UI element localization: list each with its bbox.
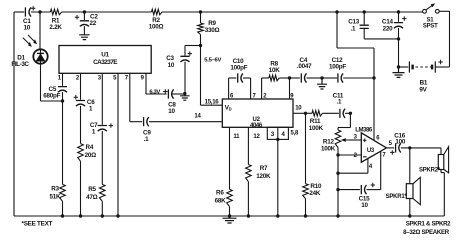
label SPKR2 (419, 168, 441, 174)
ground symbol below rail (223, 216, 237, 223)
wire R9 node to C3 (185, 46, 201, 56)
wire U2 pin10 (293, 112, 306, 114)
resistor R8 (269, 75, 279, 81)
svg-text:14: 14 (194, 113, 201, 119)
wire U2 pin12 down (247, 127, 249, 164)
wire U3 pin2 (338, 154, 361, 156)
junction R3/rail (61, 214, 64, 217)
wire R8 to pin9 node (279, 77, 289, 79)
svg-text:.1: .1 (144, 136, 149, 143)
wire C13 to C14 bottom (364, 38, 398, 40)
label U3 (367, 148, 375, 154)
junction pin4/R12 line (336, 172, 339, 175)
wire bottom ground rail (14, 215, 444, 217)
label R4 (85, 144, 97, 159)
polarity + of C7 (109, 123, 113, 127)
wire pin10 node to R11 (306, 112, 313, 114)
junction C11/R12 (349, 112, 352, 115)
node 5.5-6V junction (199, 44, 202, 47)
label C11 (333, 93, 344, 106)
node junction rail/C14 (397, 10, 400, 13)
pin 9 label U1 (141, 75, 145, 81)
svg-text:CA3237E: CA3237E (93, 59, 118, 66)
svg-text:10: 10 (168, 108, 175, 115)
node junction rail/V+ line (335, 10, 338, 13)
svg-text:5,8: 5,8 (291, 131, 300, 137)
label U2 value 4046 (250, 122, 263, 129)
label R3 (49, 186, 61, 201)
svg-text:R9: R9 (208, 20, 216, 27)
svg-text:12: 12 (253, 134, 260, 140)
wire node to SPKR2 (410, 148, 441, 155)
svg-text:22: 22 (89, 20, 96, 27)
svg-text:*SEE TEXT: *SEE TEXT (22, 220, 53, 227)
wire ground node to C12 (322, 77, 337, 79)
pin 6 label U3 (376, 135, 380, 141)
wire SPKR1 to rail (409, 199, 411, 217)
junction C4/ground (320, 76, 323, 79)
svg-text:100K: 100K (321, 146, 336, 153)
label C15 value (359, 195, 371, 209)
plus input mark U3 (363, 139, 367, 143)
polarity + of C8 (163, 89, 167, 93)
junction battery minus (397, 65, 400, 68)
label C14 value (382, 19, 394, 33)
polarity + of C3 (188, 51, 192, 55)
svg-text:24K: 24K (309, 190, 321, 197)
light arrows into D1 (23, 35, 37, 47)
svg-text:100pF: 100pF (329, 64, 346, 71)
pin 2 label U3 (354, 153, 358, 159)
junction C15/R12 line (336, 188, 339, 191)
svg-text:R7: R7 (260, 165, 268, 172)
polarity + of C2 (75, 15, 79, 19)
pin 3 label U1 (98, 75, 102, 81)
pin 3 label U2 (271, 131, 275, 138)
battery cell dashes (416, 66, 432, 68)
svg-text:.1: .1 (351, 25, 356, 32)
wire VDD to U2 pin15,16 (201, 46, 223, 106)
svg-text:SPKR1*: SPKR1* (386, 194, 408, 200)
svg-text:U1: U1 (101, 51, 109, 58)
svg-text:R10: R10 (310, 183, 322, 190)
label R12 (321, 138, 336, 152)
ground below C2 (79, 34, 90, 40)
label R11 (309, 118, 324, 132)
capacitor C11 (340, 109, 345, 118)
svg-text:.1: .1 (337, 99, 342, 106)
op-amp U1 box (59, 46, 151, 74)
label R8 (269, 61, 281, 75)
wire R7 to rail (247, 182, 249, 216)
svg-text:4046: 4046 (250, 122, 263, 129)
capacitor C4 (301, 73, 306, 82)
svg-text:20Ω: 20Ω (85, 152, 97, 159)
label C7 value (90, 122, 98, 135)
svg-text:R11: R11 (310, 118, 321, 125)
wire C7 to R5 (101, 131, 103, 185)
svg-text:R5: R5 (88, 186, 96, 193)
label C4 (297, 57, 312, 70)
wire R4 to rail (80, 161, 82, 216)
wire pins3,4 to rail (277, 139, 279, 216)
svg-text:100Ω: 100Ω (149, 24, 164, 31)
label C9 value (143, 129, 151, 143)
label C16 value (394, 132, 406, 145)
label C6 value (87, 99, 95, 112)
svg-text:100: 100 (395, 139, 406, 146)
label U2 (253, 117, 261, 123)
label see text note (22, 220, 53, 227)
svg-text:15,16: 15,16 (205, 99, 220, 105)
capacitor C15 (338, 185, 381, 194)
wire wiper to U3 pin3 (349, 139, 362, 141)
svg-text:R4: R4 (86, 144, 94, 151)
resistor R4 (78, 144, 84, 162)
resistor R10 (303, 184, 309, 199)
junction R12 line/rail (336, 214, 339, 217)
resistor R11 (312, 111, 323, 117)
junction C3/C8/ground (183, 92, 186, 95)
polarity + of C14 (402, 16, 406, 20)
svg-text:10: 10 (24, 24, 31, 31)
svg-text:SPKR2*: SPKR2* (419, 168, 441, 174)
wire C3 to ground (184, 62, 186, 94)
label R6 (215, 190, 227, 205)
svg-text:10: 10 (295, 106, 302, 112)
pin 1 label U1 (58, 75, 62, 81)
resistor R1 (50, 9, 61, 15)
polarity + of B1 (438, 60, 442, 64)
label C2 value (89, 14, 98, 28)
label C3 value (166, 55, 175, 69)
label speakers note line1 (406, 221, 451, 228)
pin 6 stub U2 (228, 78, 230, 99)
wire R3 to rail (62, 201, 64, 216)
svg-text:.0047: .0047 (297, 63, 312, 70)
label C10 (230, 58, 247, 71)
svg-text:8–32Ω SPEAKER: 8–32Ω SPEAKER (403, 229, 450, 236)
wire R10 to rail (305, 199, 307, 216)
wire V+ from rail to U3 pin6 (337, 12, 374, 141)
label C13 value (348, 19, 360, 33)
junction R10/rail (304, 214, 307, 217)
resistor R6 (227, 189, 233, 206)
speaker SPKR2 (438, 147, 448, 173)
junction pin9/C4 (288, 76, 291, 79)
capacitor C9 (144, 117, 149, 126)
pin 14 label U2 (194, 113, 201, 119)
polarity + of C16 (390, 150, 394, 154)
junction R6/rail (228, 214, 231, 217)
svg-text:11: 11 (233, 134, 240, 140)
label R9 (205, 20, 220, 34)
label R5 (86, 186, 98, 201)
pin 5 label U3 (389, 141, 393, 147)
svg-text:R3: R3 (51, 186, 59, 193)
wire C5 to node (62, 92, 64, 101)
svg-text:330Ω: 330Ω (205, 27, 220, 34)
svg-text:47Ω: 47Ω (86, 194, 98, 201)
node junction rail/C2 (83, 10, 86, 13)
pin 5 label U1 (113, 75, 117, 81)
ground below C3/C8 (180, 94, 190, 101)
wire pin2 to R8 (262, 77, 269, 79)
svg-text:10K: 10K (269, 67, 281, 74)
resistor R3 (60, 184, 66, 201)
capacitor C10 (238, 73, 243, 82)
pin 9 label U2 (290, 94, 294, 100)
wire C11 node to R12 top (338, 113, 350, 127)
label R10 (309, 183, 322, 197)
label R2 (149, 17, 164, 31)
wire R5 to rail (101, 201, 103, 216)
svg-text:9V: 9V (419, 86, 427, 93)
pin 6 label U2 (230, 94, 234, 100)
junction R5/rail (101, 214, 104, 217)
wire C9 to U2 pin14 (149, 121, 222, 123)
wire C14 to battery (398, 39, 400, 67)
junction R7/rail (247, 214, 250, 217)
node junction rail/R9 (199, 10, 202, 13)
svg-text:100pF: 100pF (230, 65, 247, 72)
wire node to R3 (62, 101, 64, 184)
pin 3 label U3 (354, 134, 358, 140)
resistor R9 (198, 12, 204, 46)
label C8 value (168, 102, 176, 116)
wire C16 to speakers node (401, 147, 410, 149)
wire R6 to rail (229, 207, 231, 216)
minus input mark U3 (363, 156, 367, 158)
wire C10 left (229, 77, 237, 79)
speaker SPKR1 (406, 177, 420, 204)
wire U1 pin7 down (130, 73, 142, 121)
svg-text:120K: 120K (256, 173, 271, 180)
pin 10 label U2 (295, 106, 302, 112)
svg-text:100K: 100K (309, 125, 324, 132)
polarity + of C6 (74, 95, 78, 99)
label 5.5-6V (204, 57, 221, 63)
junction pin2/R12 line (336, 153, 339, 156)
label VD pin (225, 104, 232, 111)
pll U2 box (222, 99, 293, 127)
wire C6 to R4 (80, 106, 82, 144)
capacitor C7 (98, 126, 107, 132)
ground below C4 wire (317, 78, 327, 89)
label U1 value CA3237E (93, 59, 118, 66)
svg-text:U3: U3 (367, 148, 375, 154)
capacitor C16 (396, 143, 401, 152)
junction SPKR1/rail (408, 214, 411, 217)
svg-text:VD: VD (225, 104, 232, 111)
pin 7 stub U2 (250, 78, 252, 99)
wire C11 to node (345, 112, 350, 114)
label LM386 (355, 127, 373, 134)
svg-text:B1: B1 (420, 79, 428, 86)
label pins 15,16 (205, 99, 220, 105)
wire pin9 node to C4 (290, 77, 300, 79)
switch S1 (423, 4, 450, 14)
wire U3 pin5 output (387, 147, 395, 149)
capacitor C13 (360, 12, 369, 39)
wire battery to S1 (449, 11, 451, 67)
junction pins3,4/rail (276, 214, 279, 217)
svg-text:SPST: SPST (423, 24, 438, 30)
polarity + of C15 (371, 183, 375, 187)
wire C10 right (243, 77, 251, 79)
junction pin5/rail (116, 214, 119, 217)
label speakers note line2 (403, 229, 450, 236)
svg-text:R12: R12 (323, 138, 335, 145)
capacitor C8 (168, 89, 173, 98)
wire U1 pin1 to C5 (62, 73, 64, 86)
label C1 value (23, 18, 31, 32)
wire C4 to ground node (307, 77, 323, 79)
label 6.3V (149, 90, 160, 96)
label R7 (256, 165, 271, 180)
wire left edge (13, 12, 15, 216)
wire U2 pin11 down (229, 127, 231, 189)
label B1 value (419, 79, 428, 93)
node A junction rail/D1 (38, 10, 41, 13)
capacitor C2 (80, 12, 89, 34)
resistor R7 (246, 165, 252, 182)
pin 4 label U2 (281, 131, 285, 138)
photodiode D1 (33, 49, 47, 63)
label C5 value (43, 86, 60, 99)
svg-text:680pF: 680pF (43, 92, 60, 99)
label R1 (49, 17, 62, 31)
svg-text:51K: 51K (49, 194, 61, 201)
pin 7 stub U3 (380, 152, 382, 190)
node junction rail/C13 (363, 10, 366, 13)
wire U1 pin5 to rail (117, 73, 119, 216)
junction pin10/R10 (304, 112, 307, 115)
label S1 (423, 17, 438, 29)
label SPKR1 (386, 194, 408, 200)
capacitor C6 (76, 101, 85, 107)
capacitor C3 (180, 56, 189, 62)
label D1 value FIL-3C (11, 61, 29, 68)
capacitor C14 (394, 12, 403, 39)
pin 2 stub U2 (261, 78, 263, 99)
svg-text:220: 220 (383, 25, 394, 32)
label U1 (101, 51, 109, 58)
wire SPKR2 to rail (441, 170, 444, 217)
wire U1 pin9 down (146, 73, 167, 94)
svg-text:R6: R6 (216, 190, 224, 197)
capacitor C1 (25, 7, 31, 16)
svg-text:10: 10 (361, 202, 368, 209)
wire U1 pin3 to C7 (101, 73, 103, 124)
capacitor C12 (338, 73, 343, 82)
wire D1 to rail (39, 12, 41, 49)
capacitor C5 (58, 87, 67, 93)
svg-text:SPKR1 & SPKR2: SPKR1 & SPKR2 (406, 221, 451, 228)
junction pins3,4 (276, 138, 279, 141)
svg-text:2.2K: 2.2K (49, 24, 62, 31)
svg-text:S1: S1 (426, 17, 434, 23)
potentiometer R12 (335, 128, 341, 217)
pins 5,8 label U2 (291, 131, 300, 137)
resistor R2 (152, 9, 163, 15)
wire top supply rail (14, 11, 423, 13)
svg-text:6.3V: 6.3V (149, 90, 160, 96)
pin 7 label U2 (252, 94, 256, 100)
pin 7 label U1 (125, 75, 129, 81)
pin 12 label U2 (253, 134, 260, 140)
wire R10 column (305, 113, 307, 183)
svg-text:FIL-3C: FIL-3C (11, 61, 29, 68)
polarity + of C1 (31, 6, 35, 10)
wiper arrow of R12 (341, 138, 348, 141)
node C5/D1 junction (61, 99, 64, 102)
pin 7 label U3 (382, 152, 386, 158)
wire C8 to ground node (172, 93, 185, 95)
svg-text:68K: 68K (215, 198, 227, 205)
pin 2 label U2 (263, 94, 267, 100)
pin 2 label U1 (76, 75, 80, 81)
pins 3,4 box U2 (267, 127, 288, 139)
pin 11 label U2 (233, 134, 240, 140)
label C12 (329, 57, 346, 71)
junction C14/battery line (397, 37, 400, 40)
junction speakers node (408, 146, 411, 149)
resistor R5 (100, 184, 106, 201)
wire U1 pin2 to C6 (80, 73, 82, 99)
svg-text:5.5–6V: 5.5–6V (204, 57, 221, 63)
wire D1 to C5 node (41, 64, 63, 101)
pin 9 stub U2 (289, 78, 291, 99)
junction C6/rail (79, 214, 82, 217)
svg-text:LM386: LM386 (355, 127, 373, 134)
op-amp U3 triangle (361, 133, 386, 162)
label D1 (17, 54, 25, 61)
wire C12 to V+ line (343, 77, 374, 79)
pin 4 label U3 (369, 164, 373, 170)
wire node to SPKR1 (409, 148, 411, 184)
battery B1 (399, 61, 450, 72)
svg-text:10: 10 (168, 62, 175, 69)
ground below battery (393, 67, 405, 77)
junction C12/V+ line (372, 76, 375, 79)
pin 4 stub U3 (338, 159, 368, 174)
wire R11 to C11 (323, 112, 339, 114)
